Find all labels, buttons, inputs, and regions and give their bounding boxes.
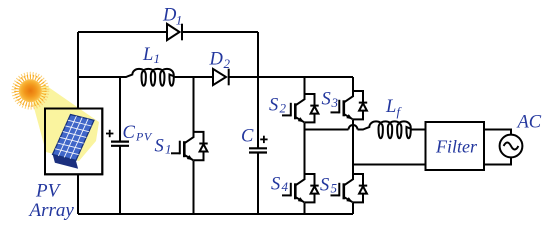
transistor S3 (IGBT) xyxy=(331,77,368,174)
svg-text:S: S xyxy=(320,176,329,196)
svg-text:3: 3 xyxy=(331,95,339,110)
svg-text:L: L xyxy=(142,45,153,65)
svg-text:L: L xyxy=(385,97,396,117)
wire filter to AC top xyxy=(484,130,511,135)
svg-text:2: 2 xyxy=(224,56,231,71)
wire top rail xyxy=(78,31,167,33)
svg-text:Filter: Filter xyxy=(435,137,478,157)
wire rail2 right xyxy=(229,76,353,78)
light beam inside box xyxy=(33,84,99,161)
wire left vertical bottom xyxy=(77,174,79,215)
svg-text:S: S xyxy=(271,175,280,195)
svg-text:PV: PV xyxy=(135,130,153,144)
svg-text:C: C xyxy=(241,127,254,147)
transistor S4 (IGBT) xyxy=(282,173,319,214)
svg-text:2: 2 xyxy=(280,101,287,116)
wire rail2 left xyxy=(78,76,127,78)
PV array box border xyxy=(45,109,102,175)
transistor S2 (IGBT) xyxy=(282,77,319,174)
wire left vertical top xyxy=(77,32,79,109)
sun xyxy=(14,74,48,108)
transistor S5 (IGBT) xyxy=(331,173,368,214)
diode D2 xyxy=(213,69,226,85)
light beam xyxy=(33,84,99,161)
svg-text:D: D xyxy=(209,50,224,70)
wire bottom rail xyxy=(78,213,353,215)
inductor L1 xyxy=(126,69,176,86)
wire H-bridge left midpoint to Lf with hop xyxy=(305,129,349,131)
filter box xyxy=(426,122,485,170)
svg-text:C: C xyxy=(123,123,136,143)
plus C xyxy=(260,136,267,143)
AC source xyxy=(500,135,523,158)
diode D1 xyxy=(167,24,180,40)
svg-text:f: f xyxy=(397,104,403,119)
svg-text:Array: Array xyxy=(28,200,75,221)
svg-text:D: D xyxy=(162,6,177,26)
plus CPV xyxy=(106,130,113,137)
capacitor C xyxy=(257,77,259,148)
svg-text:5: 5 xyxy=(331,181,338,196)
svg-text:1: 1 xyxy=(165,142,172,157)
wire Lf to filter xyxy=(412,129,426,131)
wire filter to AC bottom xyxy=(484,157,511,164)
wire rail2 mid xyxy=(175,76,213,78)
svg-text:PV: PV xyxy=(35,181,62,202)
capacitor CPV xyxy=(119,77,121,142)
svg-text:AC: AC xyxy=(516,113,542,133)
svg-text:S: S xyxy=(322,90,331,110)
transistor S1 (IGBT) xyxy=(171,77,208,214)
PV panel xyxy=(53,115,95,169)
svg-text:1: 1 xyxy=(154,51,161,66)
svg-text:4: 4 xyxy=(282,179,289,194)
PV array box xyxy=(45,109,102,175)
svg-text:S: S xyxy=(155,137,164,157)
svg-text:1: 1 xyxy=(176,13,183,28)
wire D1 drop xyxy=(257,32,259,77)
inductor Lf xyxy=(363,121,412,138)
wire H-bridge right midpoint to filter xyxy=(353,164,426,166)
svg-text:S: S xyxy=(269,96,278,116)
